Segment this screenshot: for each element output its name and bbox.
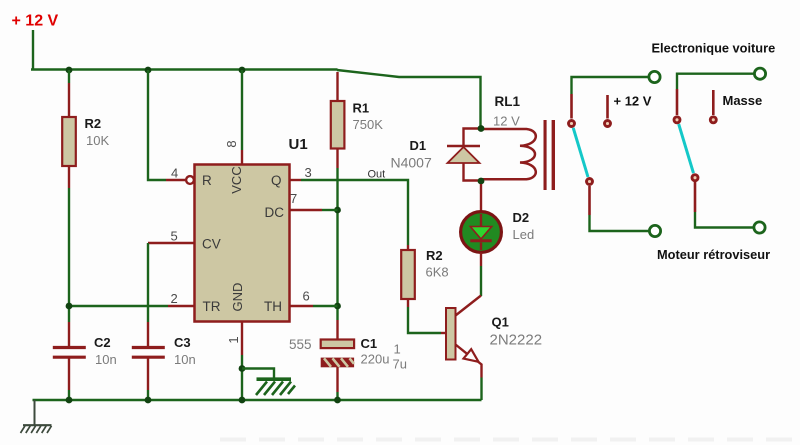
node rail/VCC xyxy=(239,67,246,74)
node threshold pin6 xyxy=(334,303,341,310)
ground symbol bottom-left xyxy=(21,400,52,433)
switch SW2 pole pin xyxy=(676,89,679,115)
capacitor C2 10n xyxy=(53,322,86,390)
+12V feed pin xyxy=(606,95,609,119)
svg-text:220u: 220u xyxy=(361,352,390,367)
svg-text:R1: R1 xyxy=(353,101,370,116)
node rail/pin4 xyxy=(145,67,152,74)
faint page artifact line xyxy=(220,438,800,442)
switch SW1 pole pin xyxy=(570,94,573,119)
resistor R2 10K xyxy=(62,83,76,188)
wire LED to collector xyxy=(480,253,482,267)
svg-text:12 V: 12 V xyxy=(493,114,520,129)
svg-text:VCC: VCC xyxy=(229,166,244,193)
svg-text:Out: Out xyxy=(368,169,386,181)
wire rail to R2 xyxy=(68,70,70,83)
node rail/R2 xyxy=(66,67,73,74)
svg-text:R2: R2 xyxy=(426,248,443,263)
wire GND pin1 xyxy=(241,322,243,356)
node discharge pin7 xyxy=(334,207,341,214)
relay core bar 2 xyxy=(552,120,555,190)
lever SW1 (cyan) xyxy=(573,128,588,177)
switch SW2 top wire xyxy=(677,74,754,89)
node relay/diode bottom xyxy=(478,178,485,185)
node rail/C3 xyxy=(145,397,152,404)
terminal SW1 bottom xyxy=(649,225,660,236)
wire CV down to C3 xyxy=(147,243,149,322)
LED D2 xyxy=(461,212,502,253)
diode D1 (flyback) xyxy=(447,129,481,181)
svg-text:1: 1 xyxy=(394,342,401,357)
terminal SW2 top xyxy=(754,68,765,79)
op-amp/timer U1 555 body xyxy=(195,165,290,322)
contact SW1 pole xyxy=(569,121,575,127)
wire emitter to ground rail xyxy=(480,378,482,401)
node rail/C2 xyxy=(66,397,73,404)
node trigger/R2/C2 xyxy=(66,303,73,310)
wire pin4 column xyxy=(148,70,166,180)
svg-text:U1: U1 xyxy=(289,136,308,153)
capacitor C1 220u (electrolytic) xyxy=(321,320,354,392)
svg-text:1: 1 xyxy=(226,336,241,343)
wire relay to LED xyxy=(480,184,482,212)
svg-text:R2: R2 xyxy=(85,116,102,131)
svg-text:750K: 750K xyxy=(353,117,384,132)
svg-text:7u: 7u xyxy=(393,357,407,372)
switch SW1 throw pin xyxy=(588,186,591,215)
switch SW2 throw pin xyxy=(694,182,697,212)
wire DC pin7 xyxy=(290,209,323,211)
svg-text:D1: D1 xyxy=(410,138,427,153)
wire trigger row to pin2 xyxy=(69,305,168,307)
wire VCC pin8 xyxy=(241,70,243,150)
contact SW2 pole xyxy=(674,117,680,123)
wire R2 to base xyxy=(408,307,441,333)
lever SW2 (cyan) xyxy=(679,124,694,173)
svg-text:2: 2 xyxy=(171,291,178,306)
wire top +12V rail xyxy=(31,68,338,71)
svg-text:N4007: N4007 xyxy=(391,155,432,171)
ground symbol near U1 xyxy=(256,379,295,395)
svg-text:+ 12 V: + 12 V xyxy=(12,13,59,30)
resistor R2 6K8 xyxy=(401,245,415,307)
svg-text:DC: DC xyxy=(265,205,285,220)
svg-text:10n: 10n xyxy=(174,352,196,367)
wire R1 down to discharge/threshold xyxy=(336,168,338,320)
Masse feed pin xyxy=(712,90,715,115)
svg-text:R: R xyxy=(202,173,212,188)
svg-text:4: 4 xyxy=(171,166,178,181)
wire output pin3 xyxy=(290,179,302,181)
svg-text:Moteur rétroviseur: Moteur rétroviseur xyxy=(657,247,770,262)
switch SW1 top wire xyxy=(572,77,649,94)
svg-text:Masse: Masse xyxy=(723,93,763,108)
svg-text:555: 555 xyxy=(289,337,312,352)
svg-text:Led: Led xyxy=(513,227,535,242)
wire C3 to ground rail xyxy=(147,390,149,400)
svg-text:Electronique voiture: Electronique voiture xyxy=(652,41,776,56)
terminal SW1 top xyxy=(649,71,660,82)
capacitor C3 10n xyxy=(132,322,165,390)
svg-text:TH: TH xyxy=(264,299,282,314)
svg-text:C2: C2 xyxy=(94,335,111,350)
svg-text:RL1: RL1 xyxy=(495,94,521,109)
node rail/C1 xyxy=(334,397,341,404)
svg-text:GND: GND xyxy=(230,283,245,312)
node relay/diode top xyxy=(478,125,485,132)
svg-text:Q: Q xyxy=(271,173,282,188)
wire SW1 bottom xyxy=(590,215,649,231)
svg-text:D2: D2 xyxy=(513,210,530,225)
svg-text:TR: TR xyxy=(203,299,221,314)
contact +12V feed xyxy=(605,121,611,127)
svg-text:6K8: 6K8 xyxy=(426,265,449,280)
svg-text:6: 6 xyxy=(303,289,310,304)
svg-text:2N2222: 2N2222 xyxy=(490,332,543,349)
svg-text:7: 7 xyxy=(290,191,297,206)
svg-text:Q1: Q1 xyxy=(492,315,509,330)
wire C2 to ground rail xyxy=(68,390,70,400)
wire CV pin5 xyxy=(148,242,195,244)
relay coil RL1 xyxy=(481,129,536,179)
svg-text:10n: 10n xyxy=(95,352,117,367)
node GND/ground branch xyxy=(239,365,246,372)
resistor R1 750K xyxy=(331,72,345,168)
contact SW2 throw xyxy=(692,175,698,181)
wire SW2 bottom xyxy=(695,212,753,228)
wire rail to relay (diagonal) xyxy=(337,70,481,126)
contact SW1 throw xyxy=(587,179,593,185)
wire +12V lead xyxy=(32,30,34,69)
wire TH pin6 xyxy=(290,305,314,307)
svg-text:+ 12 V: + 12 V xyxy=(614,94,652,109)
wire ground rail xyxy=(33,399,482,402)
svg-text:CV: CV xyxy=(202,237,221,252)
svg-text:C3: C3 xyxy=(174,335,191,350)
contact Masse feed xyxy=(710,117,716,123)
svg-text:8: 8 xyxy=(224,140,239,147)
terminal SW2 bottom xyxy=(754,222,765,233)
svg-text:C1: C1 xyxy=(361,336,378,351)
reset inversion bubble pin4 xyxy=(186,176,194,184)
transistor Q1 2N2222 xyxy=(446,296,482,378)
node rail/GND xyxy=(239,397,246,404)
svg-text:5: 5 xyxy=(171,229,178,244)
relay core bar 1 xyxy=(544,120,547,190)
svg-text:3: 3 xyxy=(305,165,312,180)
svg-text:10K: 10K xyxy=(86,133,109,148)
wire C1 to ground rail xyxy=(336,392,338,400)
wire R2 to trigger node xyxy=(68,188,70,322)
wire ground branch xyxy=(242,369,274,378)
